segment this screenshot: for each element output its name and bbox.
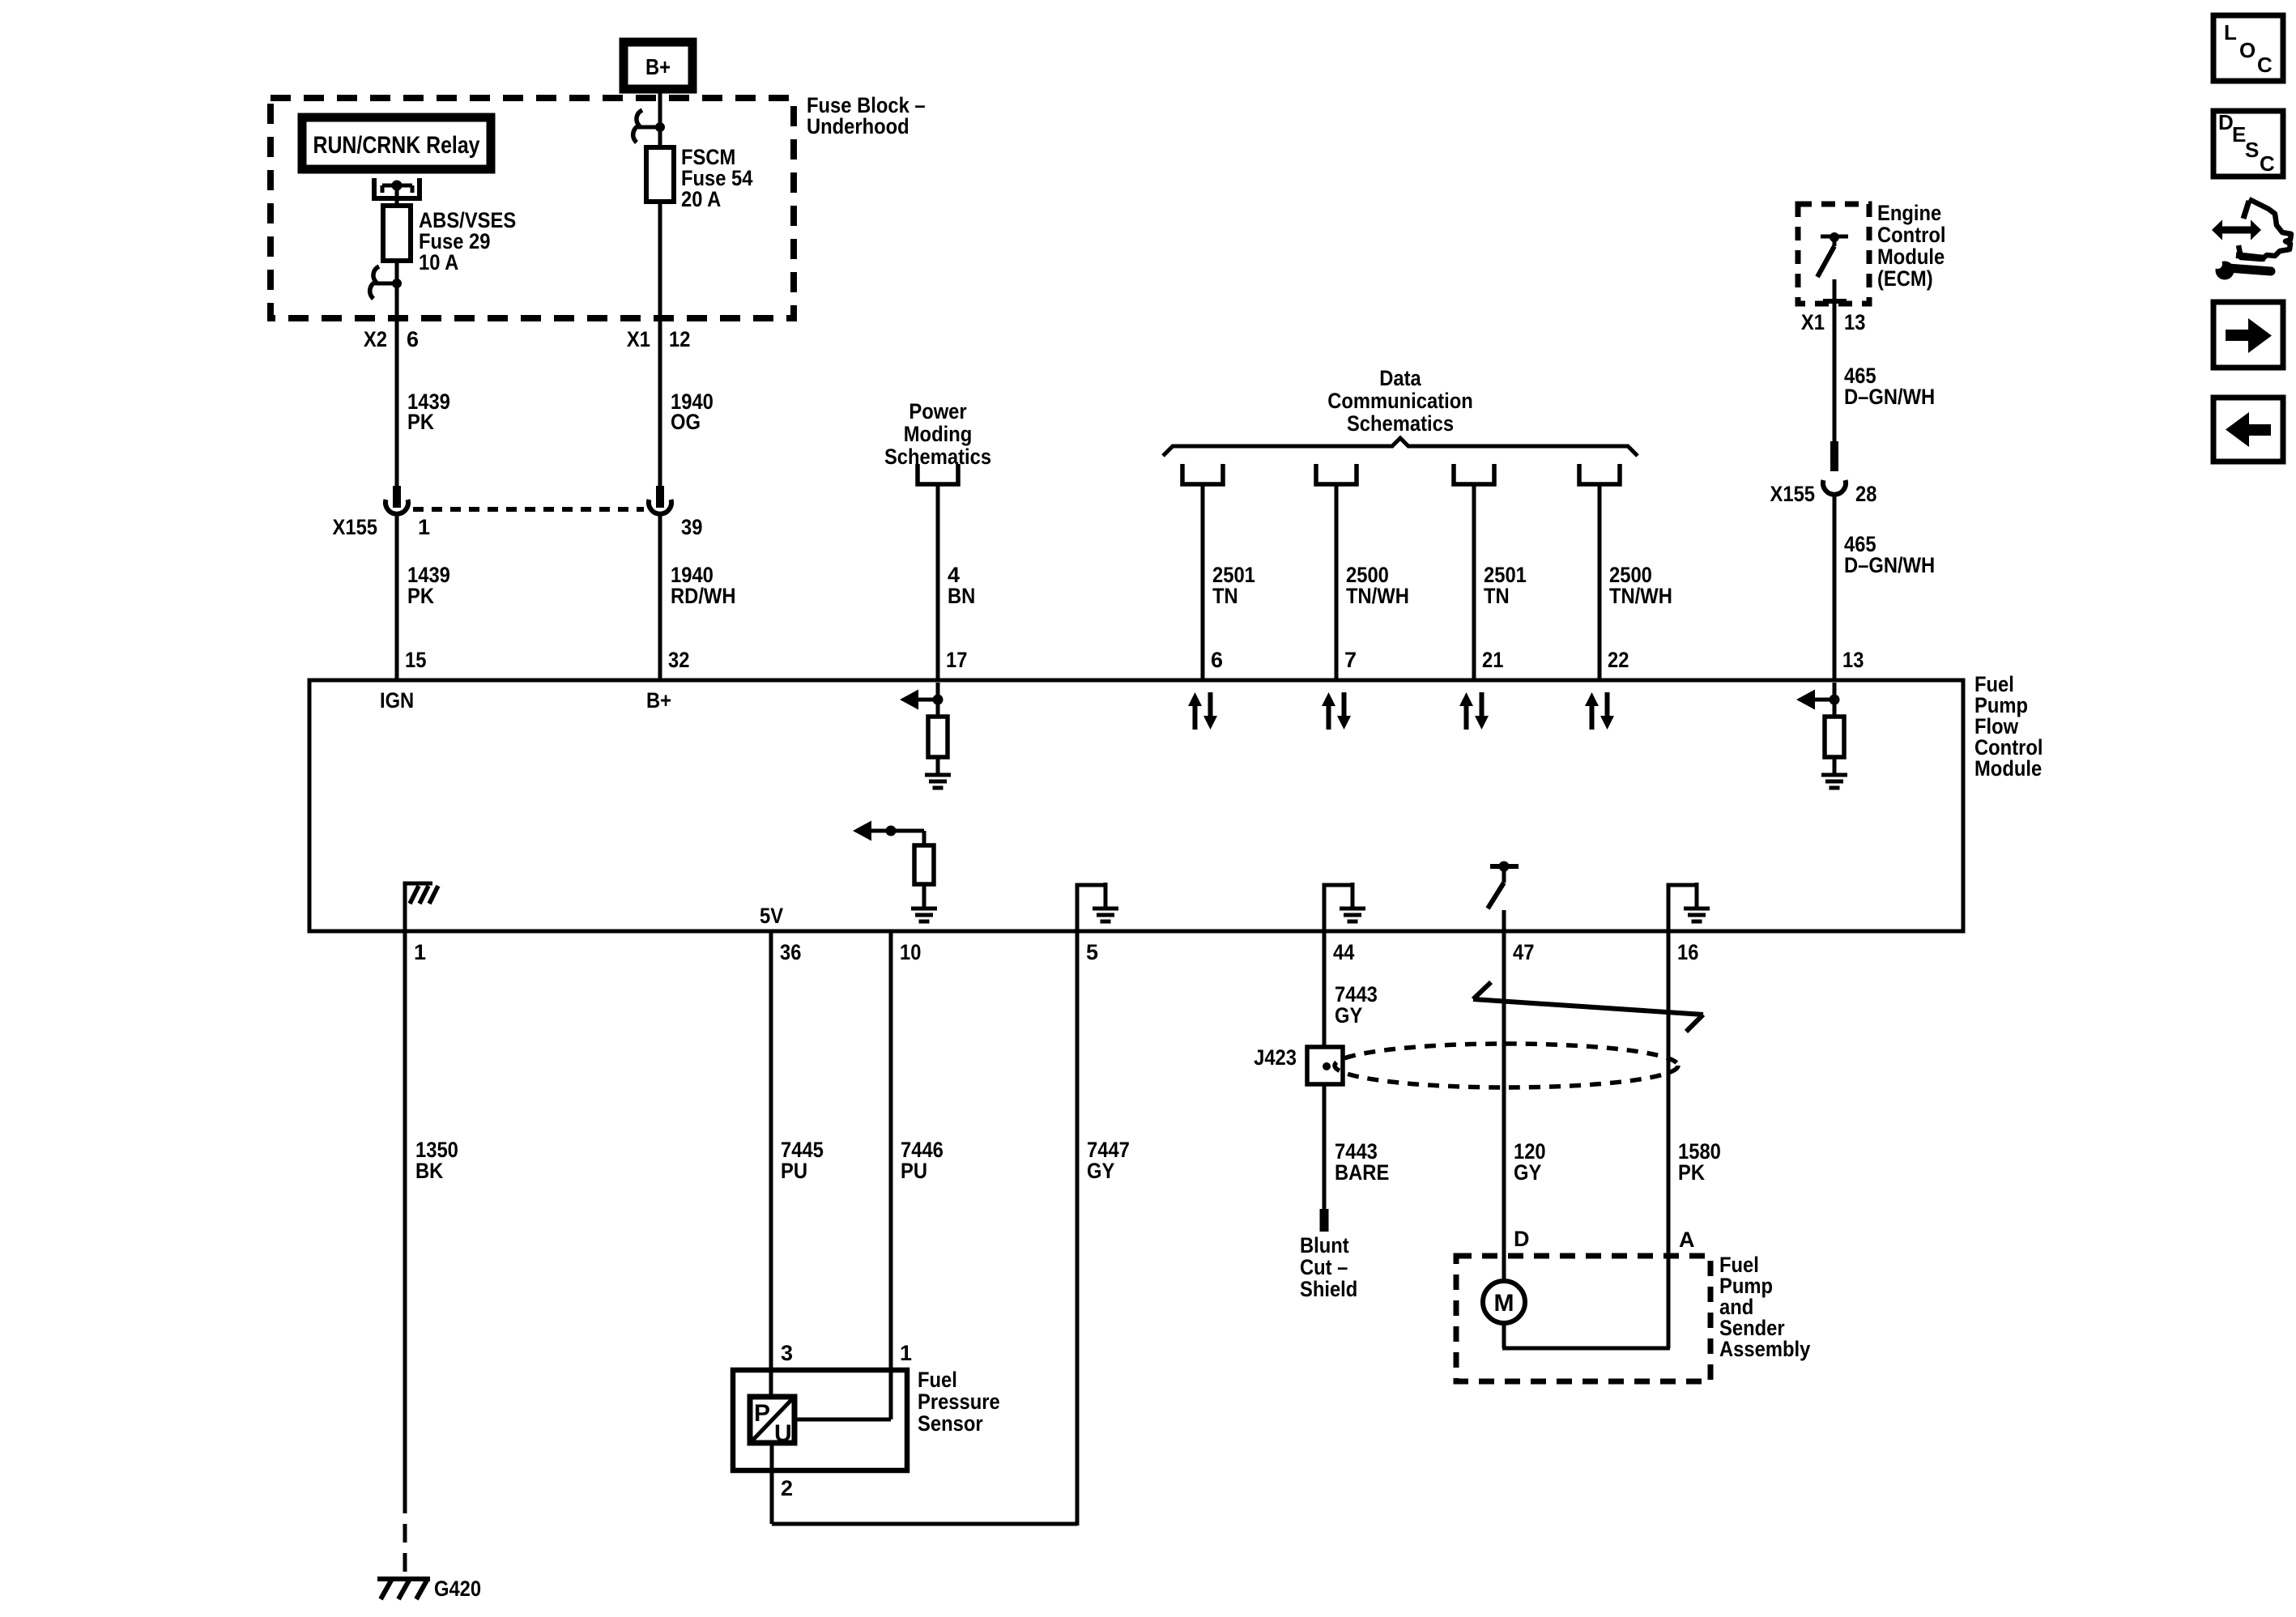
svg-text:M: M <box>1494 1290 1514 1317</box>
termination resistor to ground at pin 13 <box>1796 683 1847 788</box>
label Power Moding Schematics <box>884 399 991 469</box>
svg-text:GY: GY <box>1087 1159 1114 1183</box>
svg-text:Assembly: Assembly <box>1719 1337 1810 1361</box>
motor M fuel pump <box>1483 1281 1525 1323</box>
sensor P/U element <box>750 1397 794 1447</box>
label wire 4 BN <box>948 563 975 608</box>
label Fuse Block - Underhood <box>807 93 926 138</box>
svg-text:22: 22 <box>1608 648 1629 672</box>
svg-text:PU: PU <box>901 1159 927 1183</box>
svg-text:D: D <box>2218 110 2234 134</box>
pin 10 label <box>900 940 921 964</box>
wire X155-28 to module pin 13 <box>1833 492 1837 680</box>
svg-text:Data: Data <box>1379 366 1421 390</box>
label Fuel Pump and Sender Assembly <box>1719 1253 1810 1361</box>
wire data circuit 2500 to pin 22 <box>1598 484 1602 680</box>
svg-text:PK: PK <box>407 584 434 608</box>
label wire 1439 PK upper <box>407 389 450 434</box>
pin 36 label <box>780 940 801 964</box>
wire data circuit 2501 to pin 21 <box>1472 484 1476 680</box>
pump pin D label <box>1514 1227 1530 1251</box>
blunt cut wire end <box>1320 1209 1329 1232</box>
svg-text:X1: X1 <box>1801 310 1825 334</box>
sensor pin 2 label <box>781 1476 793 1500</box>
wire B+ to clip <box>658 89 662 129</box>
fuel pump assembly dashed box <box>1456 1256 1710 1381</box>
icon DESC box <box>2213 110 2283 177</box>
twisted pair marker <box>1473 982 1703 1032</box>
svg-text:17: 17 <box>946 648 967 672</box>
chassis ground at pin 1 <box>403 883 439 931</box>
pin 22 label <box>1608 648 1629 672</box>
pin 44 label <box>1333 940 1354 964</box>
pin 13 label <box>1842 648 1864 672</box>
termination resistor to ground at pin 17 <box>900 683 951 788</box>
svg-text:GY: GY <box>1335 1003 1362 1028</box>
pin 17 label <box>946 648 967 672</box>
pin 15 label <box>405 648 426 672</box>
svg-text:Engine: Engine <box>1877 201 1941 225</box>
label wire 1940 RD/WH <box>671 563 736 608</box>
svg-text:Cut –: Cut – <box>1300 1255 1348 1279</box>
svg-text:O: O <box>2239 38 2256 62</box>
pin 16 label <box>1677 940 1698 964</box>
svg-text:D: D <box>1514 1227 1530 1251</box>
pin 1 label <box>414 940 426 964</box>
svg-text:B+: B+ <box>646 688 671 713</box>
wire data circuit 2500 to pin 7 <box>1335 484 1339 680</box>
svg-text:1: 1 <box>900 1341 912 1365</box>
svg-text:13: 13 <box>1842 648 1864 672</box>
ground at pin 16 <box>1667 883 1710 931</box>
label wire 1439 PK lower <box>407 563 450 608</box>
label wire 465 D-GN/WH upper <box>1844 364 1935 409</box>
shield dashed ellipse <box>1335 1044 1678 1087</box>
bidirectional arrows at pin 21 <box>1459 692 1489 730</box>
label wire 7443 GY <box>1335 982 1378 1028</box>
svg-text:7: 7 <box>1344 648 1357 672</box>
svg-text:5V: 5V <box>760 904 783 928</box>
svg-text:U: U <box>774 1420 792 1447</box>
label X1 12 <box>627 327 691 351</box>
icon back arrow box <box>2213 398 2283 462</box>
wire X155-39 to module pin 32 <box>658 512 662 680</box>
svg-text:10 A: 10 A <box>419 250 458 274</box>
ground at pin 44 <box>1323 883 1366 931</box>
svg-text:15: 15 <box>405 648 426 672</box>
svg-text:X155: X155 <box>1770 482 1816 506</box>
label B+ module <box>646 688 671 713</box>
svg-text:X1: X1 <box>627 327 650 351</box>
svg-text:D–GN/WH: D–GN/WH <box>1844 385 1935 409</box>
fuse block underhood dashed box <box>270 98 794 318</box>
svg-text:20 A: 20 A <box>681 187 721 211</box>
svg-text:BN: BN <box>948 584 975 608</box>
wire 7447 GY <box>1076 931 1080 1526</box>
off-page connector bracket power moding <box>918 464 958 484</box>
label Fuel Pressure Sensor <box>918 1368 1000 1436</box>
svg-text:TN/WH: TN/WH <box>1346 584 1409 608</box>
wire motor to sender <box>1502 1323 1670 1348</box>
svg-text:Power: Power <box>909 399 967 423</box>
svg-text:P: P <box>754 1400 770 1427</box>
svg-text:5: 5 <box>1086 940 1098 964</box>
off-page connector bracket data wire 6 <box>1182 464 1223 484</box>
wire fuse 29 to clip <box>395 261 399 285</box>
svg-text:G420: G420 <box>434 1577 481 1601</box>
svg-text:Module: Module <box>1877 245 1945 269</box>
svg-text:IGN: IGN <box>380 688 414 713</box>
svg-text:BK: BK <box>415 1159 444 1183</box>
svg-text:Control: Control <box>1877 223 1946 247</box>
module ECM dashed box <box>1798 204 1869 304</box>
svg-text:32: 32 <box>668 648 689 672</box>
splice J423 box <box>1307 1047 1343 1084</box>
svg-text:Moding: Moding <box>904 422 973 446</box>
label X155 28 <box>1770 482 1877 506</box>
svg-text:D–GN/WH: D–GN/WH <box>1844 553 1935 577</box>
svg-text:12: 12 <box>669 327 690 351</box>
svg-text:PK: PK <box>1678 1160 1705 1185</box>
label wire 120 GY <box>1514 1139 1546 1185</box>
svg-text:RUN/CRNK Relay: RUN/CRNK Relay <box>313 132 480 159</box>
relay RUN/CRNK label box <box>302 117 491 169</box>
svg-text:TN: TN <box>1484 584 1510 608</box>
sensor pin 1 label <box>900 1341 912 1365</box>
label wire 1580 PK <box>1678 1139 1721 1185</box>
wire ECM X1-13 down <box>1833 315 1837 443</box>
pin 47 label <box>1513 940 1534 964</box>
pin 7 label <box>1344 648 1357 672</box>
label wire 2500 TN/WH <box>1609 563 1672 608</box>
svg-text:TN: TN <box>1212 584 1238 608</box>
pin 5 label <box>1086 940 1098 964</box>
termination resistor to ground at pin 10 <box>853 821 937 922</box>
svg-text:GY: GY <box>1514 1160 1541 1185</box>
svg-text:E: E <box>2232 122 2246 147</box>
svg-text:13: 13 <box>1844 310 1865 334</box>
wire data circuit 2501 to pin 6 <box>1201 484 1205 680</box>
svg-text:Fuel: Fuel <box>918 1368 957 1392</box>
label wire 465 D-GN/WH lower <box>1844 532 1935 577</box>
fuse FSCM Fuse 54 <box>646 147 674 202</box>
bidirectional arrows at pin 6 <box>1188 692 1217 730</box>
wire 120 GY <box>1502 931 1506 1283</box>
label wire 7445 PU <box>781 1138 824 1183</box>
svg-text:PK: PK <box>407 410 434 434</box>
svg-text:OG: OG <box>671 410 701 434</box>
bidirectional arrows at pin 7 <box>1322 692 1351 730</box>
svg-text:6: 6 <box>1211 648 1223 672</box>
label IGN <box>380 688 414 713</box>
wire 7445 PU <box>769 931 773 1399</box>
label J423 <box>1254 1045 1297 1070</box>
svg-text:3: 3 <box>781 1341 793 1365</box>
sensor Fuel Pressure Sensor box <box>733 1370 907 1470</box>
svg-text:Communication: Communication <box>1327 389 1473 413</box>
label wire 2501 TN <box>1484 563 1527 608</box>
label X155 1 <box>333 515 431 539</box>
svg-text:B+: B+ <box>645 54 671 79</box>
svg-text:16: 16 <box>1677 940 1698 964</box>
svg-text:Schematics: Schematics <box>884 445 991 469</box>
svg-text:C: C <box>2257 53 2273 77</box>
wire 7443 GY <box>1323 931 1327 1049</box>
svg-text:Module: Module <box>1974 756 2042 781</box>
label X1 13 <box>1801 310 1866 334</box>
pin 21 label <box>1482 648 1503 672</box>
svg-text:Pressure: Pressure <box>918 1389 1000 1414</box>
svg-text:Underhood: Underhood <box>807 114 909 138</box>
svg-text:Schematics: Schematics <box>1347 411 1454 436</box>
connector X155 pin28 blob and socket <box>1823 441 1846 495</box>
svg-text:X2: X2 <box>364 327 387 351</box>
svg-text:PU: PU <box>781 1159 807 1183</box>
wire clip to X155 pin 1 <box>395 283 399 487</box>
label 39 <box>681 515 702 539</box>
icon LOC box <box>2213 15 2283 81</box>
svg-text:2: 2 <box>781 1476 793 1500</box>
svg-text:RD/WH: RD/WH <box>671 584 736 608</box>
pin 32 label <box>668 648 689 672</box>
wire power moding to pin 17 <box>936 484 940 680</box>
icon forward arrow box <box>2213 302 2283 368</box>
svg-text:S: S <box>2245 138 2259 162</box>
svg-text:28: 28 <box>1855 482 1876 506</box>
label wire 1350 BK <box>415 1138 458 1183</box>
svg-text:(ECM): (ECM) <box>1877 266 1933 291</box>
connector X155 pin39 blob and socket <box>649 486 671 514</box>
svg-text:39: 39 <box>681 515 702 539</box>
label Engine Control Module (ECM) <box>1877 201 1946 291</box>
wire 7443 BARE <box>1323 1084 1327 1211</box>
wire 1580 PK <box>1667 931 1671 1348</box>
off-page connector bracket data wire 22 <box>1579 464 1620 484</box>
svg-text:36: 36 <box>780 940 801 964</box>
relay contact terminal <box>374 178 420 198</box>
label Fuel Pump Flow Control Module <box>1974 672 2043 781</box>
svg-text:BARE: BARE <box>1335 1160 1389 1185</box>
module Fuel Pump Flow Control Module box <box>309 680 1963 931</box>
off-page connector bracket data wire 21 <box>1454 464 1494 484</box>
wire relay to fuse 29 <box>395 188 399 207</box>
label Data Communication Schematics <box>1327 366 1473 436</box>
wire clip to fuse 54 <box>658 127 662 149</box>
ground at pin 5 <box>1076 883 1119 931</box>
brace data communication <box>1163 438 1638 456</box>
wire 7446 PU <box>797 931 891 1419</box>
wire sensor pin 2 to 7447 <box>772 1443 1077 1524</box>
fuse ABS/VSES Fuse 29 <box>383 206 411 261</box>
svg-text:44: 44 <box>1333 940 1354 964</box>
svg-text:X155: X155 <box>333 515 378 539</box>
connector X155 dashed tie line <box>413 507 644 512</box>
label wire 7446 PU <box>901 1138 944 1183</box>
svg-text:J423: J423 <box>1254 1045 1297 1070</box>
bidirectional arrows at pin 22 <box>1585 692 1614 730</box>
label X2 6 <box>364 327 419 351</box>
label 5V <box>760 904 783 928</box>
label ABS/VSES Fuse 29 10 A <box>419 208 516 274</box>
svg-text:1: 1 <box>414 940 426 964</box>
connector X155 pin1 blob and socket <box>386 486 408 514</box>
svg-text:47: 47 <box>1513 940 1534 964</box>
off-page connector bracket data wire 7 <box>1316 464 1357 484</box>
fuse clip terminal at fuse 54 <box>633 110 665 143</box>
switch at pin 47 <box>1488 862 1519 932</box>
fuse clip terminal at fuse 29 <box>370 266 402 299</box>
svg-text:Blunt: Blunt <box>1300 1233 1349 1257</box>
svg-text:C: C <box>2260 151 2275 176</box>
label FSCM Fuse 54 20 A <box>681 145 753 211</box>
svg-text:Sensor: Sensor <box>918 1411 983 1436</box>
wire 1350 BK <box>403 931 407 1577</box>
svg-text:TN/WH: TN/WH <box>1609 584 1672 608</box>
switch inside ECM <box>1817 232 1848 315</box>
svg-text:A: A <box>1679 1228 1695 1252</box>
label Blunt Cut - Shield <box>1300 1233 1357 1301</box>
wire X155-1 to module pin 15 <box>395 512 399 680</box>
label wire 2501 TN <box>1212 563 1255 608</box>
label G420 <box>434 1577 481 1601</box>
svg-text:6: 6 <box>407 327 419 351</box>
power symbol B+ box <box>624 42 692 89</box>
pin 6 label <box>1211 648 1223 672</box>
wire fuse 54 to X155 pin 39 <box>658 202 662 487</box>
label wire 7443 BARE <box>1335 1139 1389 1185</box>
icon vehicle with arrow and wrench <box>2212 199 2291 280</box>
label wire 2500 TN/WH <box>1346 563 1409 608</box>
svg-text:1: 1 <box>418 515 430 539</box>
svg-text:21: 21 <box>1482 648 1503 672</box>
label wire 7447 GY <box>1087 1138 1130 1183</box>
svg-text:Shield: Shield <box>1300 1277 1357 1301</box>
chassis ground G420 <box>377 1579 430 1599</box>
svg-text:10: 10 <box>900 940 921 964</box>
sensor pin 3 label <box>781 1341 793 1365</box>
pump pin A label <box>1679 1228 1695 1252</box>
svg-text:L: L <box>2224 20 2237 45</box>
label wire 1940 OG <box>671 389 714 434</box>
